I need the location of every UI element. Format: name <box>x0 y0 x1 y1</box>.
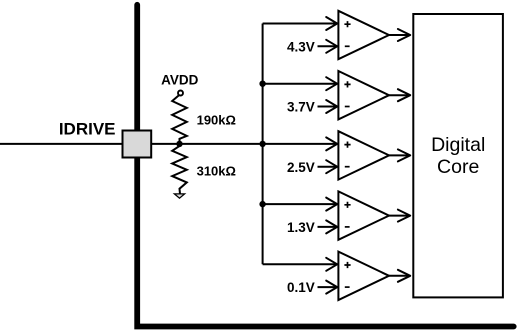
svg-text:3.7V: 3.7V <box>287 100 315 115</box>
wire - input comparator U5 <box>318 286 338 288</box>
wire + input comparator U2 <box>263 83 338 85</box>
arrowhead - input U1 <box>326 40 337 53</box>
wire output comparator U4 <box>389 215 410 217</box>
wire output comparator U2 <box>389 94 410 96</box>
wire + input comparator U3 <box>263 143 338 145</box>
pin + symbol U5 <box>344 262 350 268</box>
junction node bus tap 2 <box>259 81 265 87</box>
pin + symbol U3 <box>344 142 350 148</box>
arrowhead - input U5 <box>326 281 337 294</box>
pin + symbol U2 <box>344 81 350 87</box>
wire + input comparator U4 <box>263 203 338 205</box>
wire - input comparator U2 <box>318 106 338 108</box>
pin - symbol U3 <box>345 166 350 168</box>
svg-text:Digital: Digital <box>431 134 485 156</box>
svg-text:310kΩ: 310kΩ <box>197 164 236 179</box>
wire output comparator U1 <box>389 34 410 36</box>
svg-text:1.3V: 1.3V <box>287 220 315 235</box>
block Digital Core <box>413 14 503 297</box>
pin + symbol U1 <box>344 21 350 27</box>
arrowhead output U4 <box>398 210 410 222</box>
chip boundary (thick L wire) <box>137 5 514 327</box>
junction node bus tap 4 <box>259 201 265 207</box>
arrowhead + input U5 <box>326 258 337 271</box>
wire input bus vertical <box>262 24 264 265</box>
pin - symbol U1 <box>345 45 350 47</box>
wire pin to bus <box>152 143 263 145</box>
svg-text:IDRIVE: IDRIVE <box>59 120 116 139</box>
svg-text:Core: Core <box>437 156 479 178</box>
wire IDRIVE input <box>0 143 122 145</box>
arrowhead + input U1 <box>326 17 337 30</box>
svg-text:0.1V: 0.1V <box>287 280 315 295</box>
junction node resistor divider <box>176 141 182 147</box>
wire output comparator U5 <box>389 275 410 277</box>
pin + symbol U4 <box>344 202 350 208</box>
comparator U5 <box>338 252 389 300</box>
wire + input comparator U1 <box>263 23 338 25</box>
ground <box>174 194 184 198</box>
svg-text:190kΩ: 190kΩ <box>197 113 236 128</box>
arrowhead - input U2 <box>326 100 337 113</box>
arrowhead output U5 <box>398 270 410 282</box>
comparator U3 <box>338 131 389 179</box>
arrowhead + input U3 <box>326 137 337 150</box>
wire output comparator U3 <box>389 154 410 156</box>
arrowhead output U2 <box>398 89 410 101</box>
wire - input comparator U1 <box>318 45 338 47</box>
junction node bus tap 3 <box>259 141 265 147</box>
arrowhead + input U2 <box>326 77 337 90</box>
arrowhead output U3 <box>398 149 410 161</box>
svg-text:2.5V: 2.5V <box>287 160 315 175</box>
wire + input comparator U5 <box>263 263 338 265</box>
wire - input comparator U3 <box>318 166 338 168</box>
arrowhead - input U3 <box>326 160 337 173</box>
arrowhead + input U4 <box>326 198 337 211</box>
pin IDRIVE pad <box>123 131 152 158</box>
terminal AVDD (open circle) <box>178 91 183 96</box>
pin - symbol U2 <box>345 106 350 108</box>
resistor R2 310k zigzag <box>172 144 187 194</box>
pin - symbol U4 <box>345 226 350 228</box>
svg-text:AVDD: AVDD <box>161 72 199 87</box>
arrowhead output U1 <box>398 29 410 41</box>
arrowhead - input U4 <box>326 220 337 233</box>
comparator U2 <box>338 71 389 119</box>
resistor R1 190k zigzag <box>172 95 187 144</box>
pin - symbol U5 <box>345 286 350 288</box>
comparator U4 <box>338 191 389 239</box>
svg-text:4.3V: 4.3V <box>287 39 315 54</box>
comparator U1 <box>338 11 389 59</box>
wire - input comparator U4 <box>318 226 338 228</box>
